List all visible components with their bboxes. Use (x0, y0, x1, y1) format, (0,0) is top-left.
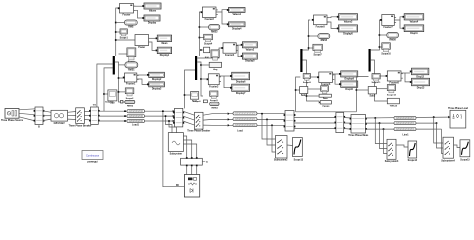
svg-text:RMS6: RMS6 (389, 40, 396, 42)
svg-text:Fourier2: Fourier2 (205, 19, 215, 21)
series element load1 phase B (127, 115, 145, 118)
tap wire line to bus1 (104, 68, 113, 112)
display values (142, 3, 161, 13)
junction dots to fault (261, 113, 263, 115)
wire to scope c3b (307, 88, 321, 90)
series element line phase C (233, 124, 257, 127)
svg-text:RMS2: RMS2 (127, 106, 134, 108)
svg-text:Fourier3: Fourier3 (209, 86, 219, 88)
cluster2 riser up (199, 12, 202, 56)
scope D2 (204, 34, 213, 45)
wire F5 to displays (333, 73, 340, 75)
wire A2 to displays (216, 10, 227, 12)
svg-text:Subsystem: Subsystem (170, 152, 182, 155)
display values2 (227, 8, 245, 17)
svg-text:Scope3: Scope3 (105, 102, 114, 104)
junction dots near load (433, 116, 435, 118)
svg-text:Sub3: Sub3 (369, 96, 375, 98)
fault scope (293, 138, 303, 157)
svg-text:S/H: S/H (205, 57, 209, 59)
bus bar 4 (369, 49, 371, 72)
wire to scope D3 (309, 47, 313, 49)
svg-text:Subsystem2: Subsystem2 (274, 159, 288, 162)
trunk section line3 phase C (294, 128, 336, 130)
riser wire to bus4 (356, 77, 368, 112)
svg-text:TW124: TW124 (390, 105, 398, 108)
subsystem I (108, 90, 117, 105)
wire bus2 to fourier4 (197, 48, 223, 58)
three-phase transformer T (51, 110, 68, 125)
wire to oval C4 (379, 34, 386, 36)
drop wires to switch2 (375, 118, 387, 144)
data block 3 (387, 98, 399, 107)
wire to block4L (356, 89, 368, 91)
three-phase RLC block (181, 157, 209, 166)
display values4 (337, 14, 358, 24)
riser wire B3 to bus3 (296, 77, 301, 112)
svg-text:Data: Data (323, 97, 329, 100)
trunk section line2 phase B (203, 118, 285, 121)
wires subsystem to rlc (183, 136, 186, 157)
three-phase V-I measurement B3 (284, 111, 296, 132)
crt scope G (127, 48, 136, 64)
wire A3 to displays (327, 16, 337, 19)
subsystem block (168, 133, 183, 156)
wires breaker1 to measurement B1 (84, 111, 90, 113)
wire to data c3 (307, 95, 320, 97)
scope c3 left (303, 74, 310, 81)
svg-text:RMS4: RMS4 (211, 107, 218, 110)
svg-text:RMS1: RMS1 (128, 70, 135, 72)
scope K (125, 88, 134, 96)
bus bar 3 (300, 49, 302, 72)
display display12 (410, 68, 429, 78)
cluster3 mid riser (303, 60, 320, 101)
svg-text:Scope7: Scope7 (314, 54, 323, 56)
junction dots riser2up (199, 26, 201, 28)
data block 1 (319, 94, 331, 97)
trunk section line1 phase A (98, 110, 174, 112)
series element load2 phase A (394, 116, 416, 119)
wire to fourier c4b (375, 75, 388, 77)
display values3 (241, 42, 258, 52)
three-phase load block (448, 108, 468, 128)
svg-text:Values4: Values4 (410, 21, 419, 24)
junction dot riser3 (295, 89, 297, 91)
scope D4 (381, 43, 391, 56)
trunk section line2 phase A (203, 114, 285, 116)
svg-text:Display1: Display1 (160, 55, 170, 57)
svg-text:Disp11: Disp11 (410, 33, 418, 35)
svg-text:Display4: Display4 (232, 27, 242, 30)
scope c3b (321, 86, 329, 94)
scope D3 (313, 44, 323, 56)
svg-text:Fourier4: Fourier4 (225, 54, 235, 57)
svg-text:Scope2: Scope2 (126, 98, 135, 100)
wire F6 to displays (401, 72, 410, 74)
junction arrows section1 (124, 110, 126, 112)
scope F2 (210, 91, 218, 98)
svg-text:Display5: Display5 (245, 61, 255, 63)
sample hold block (204, 47, 210, 53)
display display7 (230, 84, 250, 95)
svg-text:Scope10: Scope10 (381, 53, 391, 55)
display display9 (339, 71, 358, 81)
trunk section line4 phase B (366, 122, 437, 124)
three-phase fault block (276, 136, 288, 159)
svg-text:Values1: Values1 (232, 14, 241, 16)
wire to fourier c3b (307, 76, 319, 78)
svg-text:Disp13: Disp13 (417, 87, 425, 89)
trunk section line1 phase C (98, 120, 174, 122)
wire left to dc source (163, 111, 185, 187)
svg-text:Display: Display (148, 23, 157, 25)
wire fault to scope (287, 144, 293, 147)
three-phase breaker 2 (195, 112, 204, 129)
svg-text:Three Phase Source: Three Phase Source (1, 120, 24, 122)
svg-text:Scope6: Scope6 (193, 101, 202, 103)
trunk section line4 phase C (366, 128, 434, 130)
svg-text:Scope15: Scope15 (460, 159, 470, 161)
svg-text:Values2: Values2 (246, 49, 255, 51)
svg-text:Subsystem3: Subsystem3 (385, 160, 399, 163)
svg-text:Fourier: Fourier (123, 15, 131, 17)
junction dots mid riser4 (374, 75, 376, 77)
display display1 (156, 47, 172, 57)
svg-text:Scope11: Scope11 (372, 82, 382, 84)
svg-text:Power: Power (138, 47, 145, 49)
junction dots section4 (375, 117, 377, 119)
wire to scope D (116, 31, 120, 33)
svg-text:Display2: Display2 (152, 79, 162, 81)
svg-text:Sub2: Sub2 (301, 95, 307, 97)
fourier3 (207, 74, 221, 89)
three-phase V-I measurement B2 (173, 108, 184, 127)
fourier B3b (317, 72, 334, 86)
svg-text:Fourier1: Fourier1 (126, 84, 136, 86)
series element line phase B (233, 118, 257, 121)
display display6 (230, 72, 250, 83)
dc source block (176, 175, 200, 198)
wire F3 to displays (219, 75, 230, 77)
wave scope 3 (460, 140, 470, 157)
three-phase V-I measurement B (34, 107, 45, 128)
wire to scope c4b (375, 88, 388, 90)
series element line phase A (233, 112, 257, 115)
svg-text:DC: DC (176, 185, 180, 187)
svg-text:Values3: Values3 (344, 22, 353, 24)
wire to oval C2 (199, 26, 208, 28)
svg-text:Three Phase Meas: Three Phase Meas (348, 135, 369, 137)
display display2 (147, 72, 164, 81)
riser wire measurement B1 to bus1 (97, 64, 113, 107)
wire to fourier3 (201, 78, 208, 80)
wires B2 to breaker2 diagonals (183, 111, 195, 115)
svg-text:Continuous: Continuous (86, 153, 100, 157)
scope D (120, 29, 129, 40)
display display11 (403, 25, 424, 35)
block c3 left2 (300, 87, 308, 98)
oval RMS L (125, 100, 135, 103)
junction dot riser4 (356, 89, 358, 91)
svg-text:Fourier7: Fourier7 (383, 27, 393, 29)
svg-text:Scope12: Scope12 (387, 94, 397, 96)
svg-text:Disp10: Disp10 (345, 89, 353, 91)
drop wires to switch3 (434, 117, 443, 143)
switch block 3 (443, 137, 454, 158)
fourier A3 (312, 15, 329, 28)
svg-text:powergui: powergui (87, 162, 98, 164)
drop wires to subsystem (166, 116, 173, 133)
svg-text:Scope8: Scope8 (303, 82, 312, 84)
block c4 left2 (368, 87, 376, 98)
arrowheads section2 (228, 112, 230, 115)
oval RMS C4 (387, 32, 399, 41)
fourier4 (221, 43, 238, 57)
cluster4 riser up (371, 20, 382, 50)
fourier A4 (380, 15, 396, 30)
wires transformer to breaker1 (68, 111, 76, 114)
display mean (156, 35, 172, 45)
display display (142, 15, 160, 25)
three-phase breaker 1 (76, 108, 85, 124)
trunk section line2 phase C (203, 124, 285, 126)
junction dots riser1 (115, 22, 117, 24)
three-phase V-I measurement B4 (335, 112, 346, 132)
junction dots drops (165, 115, 167, 117)
junction dot riser2 (184, 94, 186, 96)
oval RMS C3 (318, 34, 330, 43)
display display4 (227, 22, 245, 30)
wave scope 2 (408, 141, 417, 158)
svg-text:Display8: Display8 (343, 34, 353, 36)
oval RMS C (125, 20, 138, 29)
wire to oval C (116, 22, 125, 24)
fourier block A (118, 4, 136, 17)
svg-text:Display3: Display3 (152, 88, 162, 90)
wire E to displays (149, 37, 156, 39)
svg-text:Subsystem4: Subsystem4 (441, 160, 455, 163)
trunk section line3 phase B (294, 122, 336, 124)
svg-text:Avg: Avg (213, 68, 218, 71)
cluster1 riser up (116, 8, 119, 56)
sign block (209, 62, 221, 67)
wire to oval H (119, 64, 125, 66)
wire to scope D2 (199, 37, 203, 39)
svg-text:RMS3: RMS3 (211, 32, 218, 34)
svg-text:Scope13: Scope13 (294, 160, 304, 162)
oval RMS C2 (209, 24, 220, 33)
trunk section line3 phase A (294, 117, 336, 119)
three-phase source block (1, 109, 24, 123)
svg-text:Scope14: Scope14 (408, 159, 418, 162)
svg-text:Scope1: Scope1 (120, 38, 129, 40)
wire to scope K (119, 91, 126, 93)
wire J to displays (137, 74, 147, 76)
junction dots mid riser3 (306, 76, 308, 78)
wire to scope D4 (379, 46, 381, 48)
three-phase V-I measurement B5 (348, 115, 369, 137)
svg-text:RMS5: RMS5 (321, 40, 328, 42)
svg-text:Display6: Display6 (236, 81, 246, 83)
cluster2 mid riser (197, 62, 203, 96)
three-phase V-I measurement B1 (89, 107, 100, 124)
oval RMS L2 (210, 102, 219, 105)
subsystem1 block (191, 92, 199, 103)
wires B to transformer (43, 111, 51, 113)
fourier J (123, 73, 139, 86)
powergui block (82, 151, 103, 164)
junction dots mid riser1 (118, 77, 120, 79)
svg-text:Scope4: Scope4 (204, 42, 213, 45)
svg-text:Load1: Load1 (132, 125, 139, 127)
svg-text:Mean: Mean (162, 43, 168, 45)
wire line3 to corner (433, 128, 442, 130)
cross wire y112 (296, 111, 357, 113)
cluster3 riser up (303, 20, 311, 50)
svg-text:Three Phase Breaker: Three Phase Breaker (187, 131, 210, 133)
series element load1 phase A (127, 110, 145, 113)
junction dot tap (103, 93, 105, 95)
display display5 (241, 53, 258, 63)
wire to fourier J (119, 77, 125, 79)
svg-text:415V/11kV: 415V/11kV (53, 122, 65, 125)
wire bus1 to block E (116, 39, 135, 41)
display display3 (147, 82, 164, 91)
drop wires to fault block (262, 114, 276, 139)
cluster4 mid riser (371, 60, 388, 101)
series element load2 phase C (394, 128, 416, 131)
svg-text:RMS: RMS (128, 27, 134, 29)
wire line1 into load (447, 116, 450, 118)
wires B4 to B5 diagonals (344, 117, 351, 120)
trunk section line1 phase B (98, 115, 174, 117)
wire to sign (201, 64, 209, 66)
riser wire B2 to bus2 (185, 70, 196, 108)
wire F4 to displays (236, 44, 241, 46)
svg-text:Three Phase Breaker: Three Phase Breaker (69, 125, 92, 127)
tiny block M (121, 100, 123, 103)
svg-text:Display9: Display9 (344, 79, 354, 81)
svg-text:Values: Values (149, 11, 157, 13)
svg-text:Load: Load (237, 130, 243, 132)
display display10 (339, 81, 358, 91)
tiny block M2 (203, 100, 207, 103)
display values5 (403, 14, 424, 24)
svg-text:Display7: Display7 (236, 93, 246, 95)
wire switch2 to scope (396, 145, 408, 147)
fourier B4b (386, 71, 403, 85)
wire to crt G (119, 53, 127, 55)
fourier block A2 (201, 7, 218, 21)
series element load1 phase C (127, 119, 145, 122)
junction dots riser3up (308, 35, 310, 37)
svg-text:Three Phase Load: Three Phase Load (448, 108, 468, 110)
svg-text:TW123: TW123 (322, 106, 330, 108)
trunk section line4 phase A (366, 116, 448, 119)
wire A to displays (134, 5, 143, 7)
wires source to measurement B (19, 109, 35, 110)
arrowheads into measurement B2 (173, 110, 175, 113)
wire to SH (201, 49, 204, 51)
display display13 (410, 78, 430, 89)
svg-text:Fourier5: Fourier5 (316, 26, 326, 28)
wire to block3L (296, 89, 300, 91)
wire A4 to displays (394, 17, 402, 20)
oval RMS H (125, 62, 138, 72)
wire to subsystem I (104, 93, 108, 95)
svg-text:Scope5: Scope5 (210, 100, 219, 102)
series element load2 phase B (394, 122, 416, 125)
display display8 (337, 25, 358, 36)
wire to oval C3 (309, 35, 318, 37)
scope c4 left (372, 74, 380, 81)
wires rlc to dc source (186, 166, 188, 174)
scope c4b (387, 85, 395, 93)
power block E (135, 35, 149, 50)
junction dots mid riser2 (200, 78, 202, 80)
data block 2 (319, 101, 332, 108)
wire switch3 to scope (454, 145, 461, 148)
wire to subsystem1 (185, 94, 191, 96)
cluster1 mid riser (115, 62, 125, 102)
bus bar 2 (195, 56, 197, 80)
switch block 2 (387, 139, 396, 159)
scope E2 (211, 50, 219, 60)
junction dots riser4up (379, 34, 381, 36)
svg-text:Line1: Line1 (403, 134, 410, 136)
bus bar 1 (113, 56, 115, 75)
